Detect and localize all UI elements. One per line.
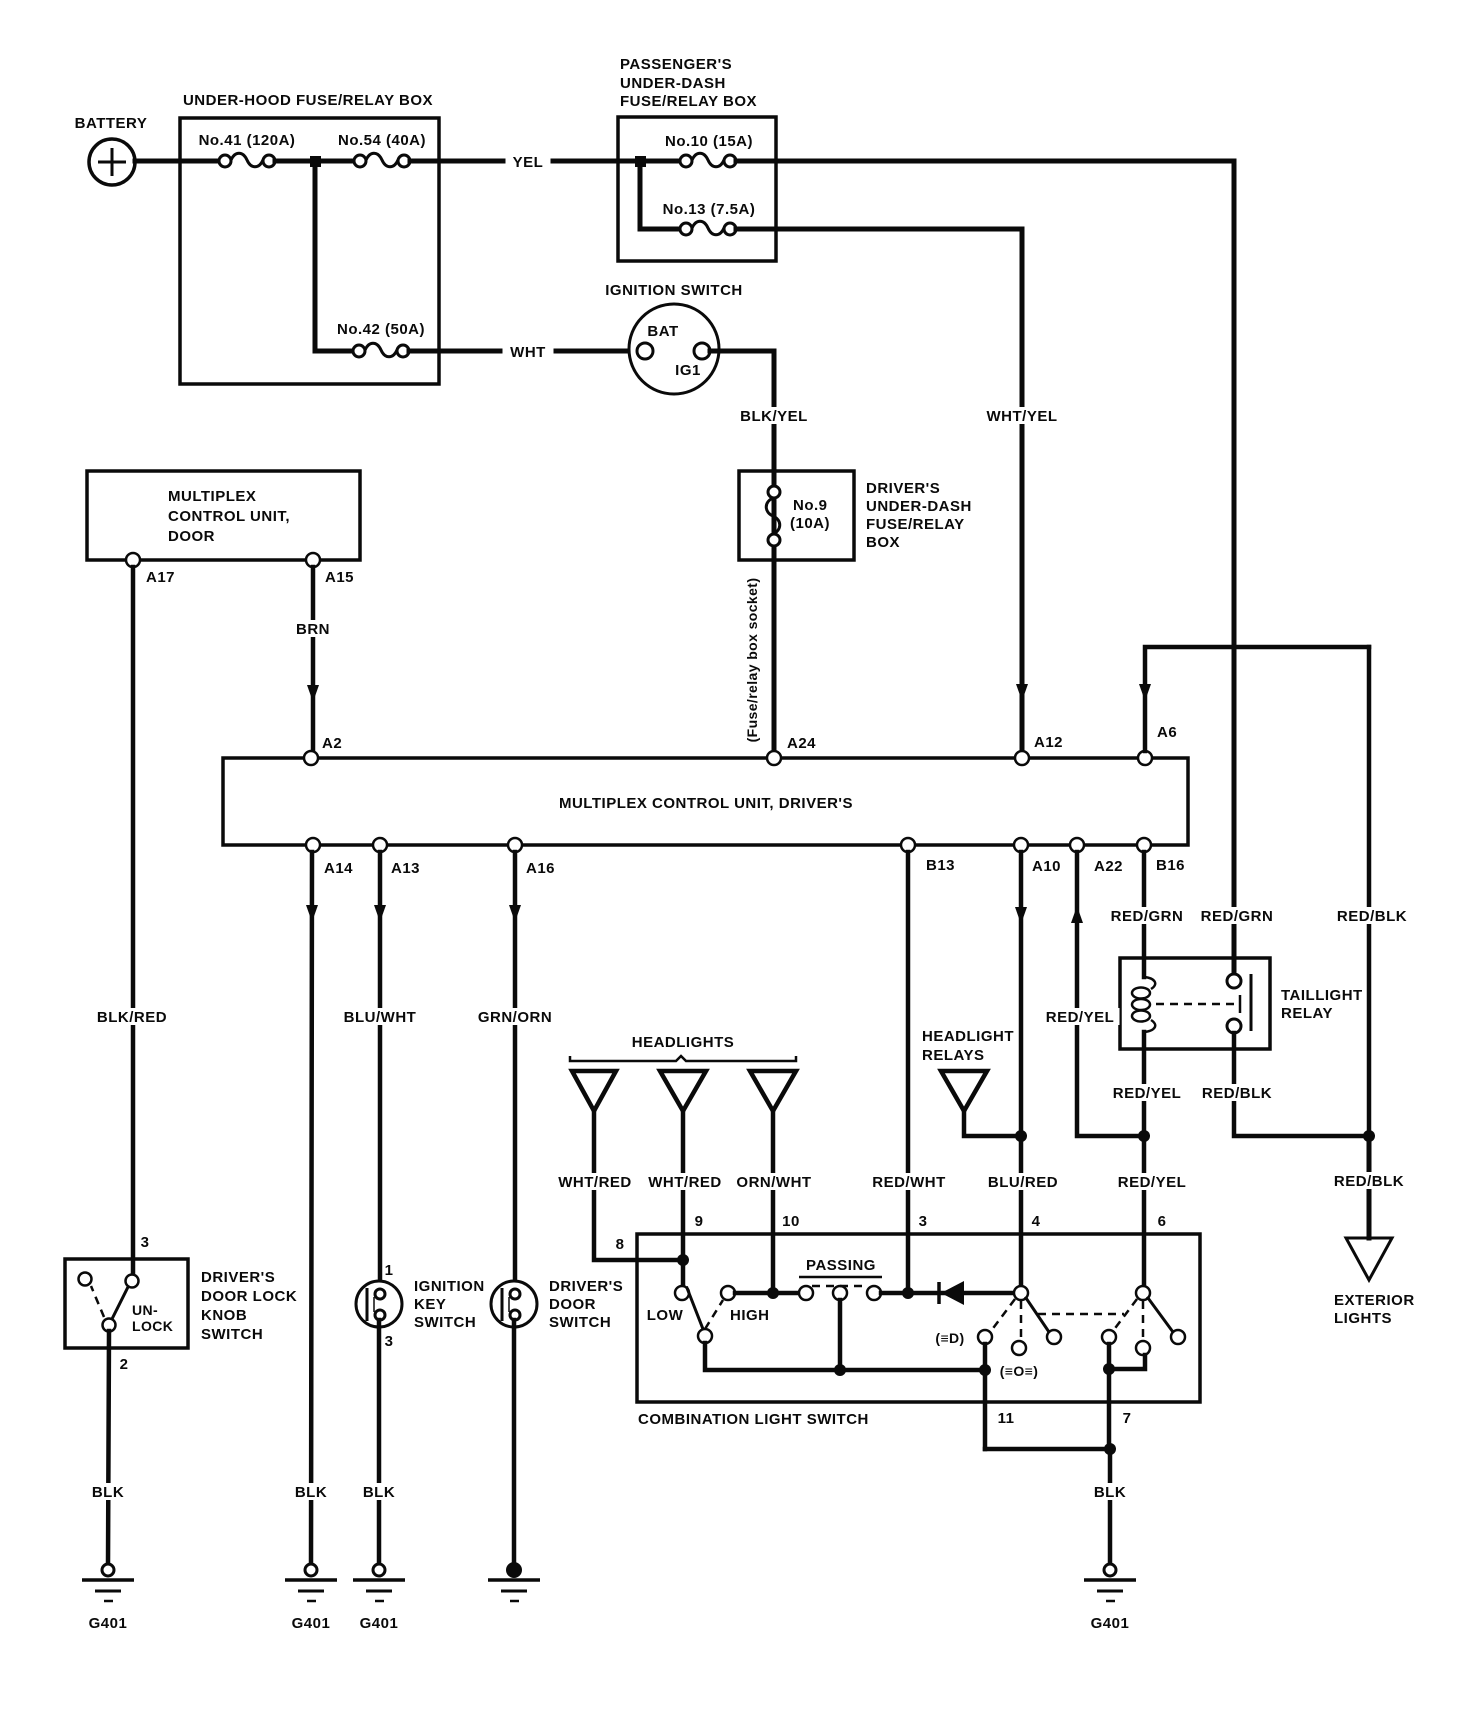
taillight switch dashed off	[1142, 1301, 1145, 1341]
svg-text:BAT: BAT	[647, 323, 678, 340]
svg-text:2: 2	[120, 1356, 129, 1373]
wire A14 to ground	[311, 852, 312, 1564]
wire BLK/YEL vertical	[772, 351, 777, 753]
svg-text:RED/BLK: RED/BLK	[1202, 1085, 1272, 1102]
svg-text:A13: A13	[391, 860, 420, 877]
driver's door lock knob switch	[65, 1234, 297, 1348]
svg-text:WHT/RED: WHT/RED	[558, 1174, 632, 1191]
svg-text:A16: A16	[526, 860, 555, 877]
terminal A17	[126, 553, 140, 567]
svg-text:DRIVER'S: DRIVER'S	[866, 480, 940, 497]
combination light switch box	[637, 1234, 1200, 1402]
svg-text:SWITCH: SWITCH	[201, 1326, 263, 1343]
svg-text:3: 3	[141, 1234, 150, 1251]
headlight switch common OFF dashed	[1020, 1301, 1023, 1341]
svg-text:RED/BLK: RED/BLK	[1337, 908, 1407, 925]
wire HIGH to passing contact	[735, 1291, 799, 1296]
wire label RED/BLK	[1332, 907, 1409, 924]
wire A17 long vertical	[131, 567, 136, 1276]
wire headlight3 ORN/WHT pin 10	[771, 1111, 776, 1293]
fuse No.10 (15A)	[640, 133, 753, 167]
wire label RED/WHT	[870, 1173, 949, 1190]
wire label YEL	[506, 152, 551, 169]
arrow on WHT/YEL wire	[1016, 684, 1028, 701]
svg-text:MULTIPLEX: MULTIPLEX	[168, 488, 256, 505]
alternate contact	[79, 1273, 92, 1286]
dimmer common	[698, 1329, 712, 1343]
headlight 2	[660, 1071, 706, 1111]
contact (ED)	[978, 1330, 992, 1344]
junction coil output and A22 branch	[1138, 1130, 1150, 1142]
junction in passenger box	[635, 156, 646, 167]
wire label WHT/RED	[556, 1173, 634, 1190]
wire A22 RED/YEL	[1077, 852, 1138, 1136]
svg-text:No.13 (7.5A): No.13 (7.5A)	[663, 201, 756, 218]
wire A13 lower to ground	[377, 1320, 382, 1564]
svg-text:GRN/ORN: GRN/ORN	[478, 1009, 552, 1026]
terminal A2	[304, 751, 318, 765]
fuse No.54 (40A)	[338, 132, 426, 167]
svg-text:RED/WHT: RED/WHT	[872, 1174, 946, 1191]
passing contact right	[867, 1286, 881, 1300]
wire label GRN/ORN	[475, 1008, 556, 1025]
wire A6 riser	[1145, 647, 1369, 751]
wire A13 upper	[378, 852, 383, 1290]
svg-text:WHT/YEL: WHT/YEL	[987, 408, 1058, 425]
wire label BLK/RED	[95, 1008, 172, 1025]
svg-text:DOOR LOCK: DOOR LOCK	[201, 1288, 297, 1305]
wire A16 lower to ground	[512, 1320, 517, 1566]
headlight switch dashed to ED	[991, 1299, 1015, 1331]
svg-text:(10A): (10A)	[790, 515, 830, 532]
contact tail lever end	[1171, 1330, 1185, 1344]
junction tail stub	[1103, 1363, 1115, 1375]
wire passing to diode to pin4 contact	[881, 1291, 1014, 1296]
wire label RED/BLK	[1199, 1084, 1276, 1101]
junction RED/WHT pin3	[902, 1287, 914, 1299]
svg-text:7: 7	[1123, 1410, 1132, 1427]
taillight switch contact pin6	[1136, 1286, 1150, 1300]
junction bus to pin 11	[979, 1364, 991, 1376]
svg-text:BLK: BLK	[92, 1484, 124, 1501]
svg-text:BLU/WHT: BLU/WHT	[344, 1009, 417, 1026]
terminal A24	[767, 751, 781, 765]
svg-text:RED/GRN: RED/GRN	[1201, 908, 1274, 925]
svg-text:BLK/RED: BLK/RED	[97, 1009, 167, 1026]
lock lever	[112, 1287, 128, 1319]
headlights brace	[570, 1056, 796, 1061]
passenger's under-dash fuse/relay box	[618, 117, 776, 261]
wire bus dimmer common	[705, 1343, 985, 1370]
fuse No.41 (120A)	[199, 132, 296, 167]
terminal B13	[901, 838, 915, 852]
svg-text:A22: A22	[1094, 858, 1123, 875]
svg-text:KNOB: KNOB	[201, 1307, 247, 1324]
svg-text:A14: A14	[324, 860, 353, 877]
wire label BLU/RED	[986, 1173, 1061, 1190]
svg-text:DRIVER'S: DRIVER'S	[549, 1278, 623, 1295]
dimmer lever	[687, 1288, 703, 1329]
ground G401 (A14)	[285, 1564, 337, 1632]
arrow on A16 wire	[509, 905, 521, 922]
taillight relay	[1120, 958, 1363, 1049]
passing contact middle	[833, 1286, 847, 1300]
wire pin11 to pin7 joint	[985, 1447, 1110, 1452]
svg-text:WHT: WHT	[510, 344, 546, 361]
svg-text:RELAY: RELAY	[1281, 1005, 1333, 1022]
wire ED contact to pin 11	[983, 1344, 988, 1449]
ignition switch	[605, 282, 743, 394]
arrow on A6 riser	[1139, 684, 1151, 701]
junction passing middle drop	[834, 1364, 846, 1376]
svg-text:FUSE/RELAY: FUSE/RELAY	[866, 516, 965, 533]
junction pin8/pin9	[677, 1254, 689, 1266]
wire label RED/GRN	[1109, 907, 1187, 924]
svg-text:MULTIPLEX CONTROL UNIT, DRIVER: MULTIPLEX CONTROL UNIT, DRIVER'S	[559, 795, 853, 812]
relay terminal bottom	[1227, 1019, 1241, 1033]
pin 3 contact	[126, 1275, 139, 1288]
svg-text:HEADLIGHTS: HEADLIGHTS	[632, 1034, 735, 1051]
svg-text:3: 3	[919, 1213, 928, 1230]
svg-text:DOOR: DOOR	[168, 528, 215, 545]
contact lever end	[1047, 1330, 1061, 1344]
wire common to ground	[108, 1331, 109, 1564]
headlight relays triangle	[941, 1071, 987, 1111]
arrow on BRN wire	[307, 685, 319, 702]
wire WHT/YEL horizontal run	[736, 227, 1022, 232]
svg-text:RED/YEL: RED/YEL	[1118, 1174, 1187, 1191]
contact HIGH	[721, 1286, 735, 1300]
relay dashed link	[1156, 1003, 1238, 1006]
svg-text:PASSENGER'S: PASSENGER'S	[620, 56, 732, 73]
junction pin10 wire	[767, 1287, 779, 1299]
passing lever dashed	[812, 1285, 868, 1288]
wire fuse41 to junction	[275, 159, 360, 164]
contact tail left	[1102, 1330, 1116, 1344]
wire label BLK	[1087, 1483, 1134, 1500]
taillight switch lever	[1148, 1298, 1173, 1332]
arrow on A13 wire	[374, 905, 386, 922]
svg-text:B13: B13	[926, 857, 955, 874]
wire label BLK	[356, 1483, 403, 1500]
terminal A14	[306, 838, 320, 852]
wire label BLK	[288, 1483, 335, 1500]
wire passenger box internal drop	[638, 161, 643, 229]
svg-text:EXTERIOR: EXTERIOR	[1334, 1292, 1415, 1309]
relay terminal top	[1227, 974, 1241, 988]
lock lever dashed alternate	[91, 1286, 104, 1317]
svg-text:YEL: YEL	[513, 154, 544, 171]
svg-text:G401: G401	[89, 1615, 128, 1632]
arrow on A14 wire	[306, 905, 318, 922]
svg-text:11: 11	[998, 1410, 1015, 1427]
relay coil	[1144, 974, 1155, 989]
svg-text:LOW: LOW	[647, 1307, 684, 1324]
contact position small	[1012, 1341, 1026, 1355]
svg-text:4: 4	[1032, 1213, 1041, 1230]
terminal A6	[1138, 751, 1152, 765]
svg-text:BLU/RED: BLU/RED	[988, 1174, 1058, 1191]
svg-text:UNDER-DASH: UNDER-DASH	[620, 75, 726, 92]
wire headlight relays to BLU/RED	[964, 1111, 1015, 1136]
contact tail middle	[1136, 1341, 1150, 1355]
wire label RED/YEL	[1042, 1008, 1120, 1025]
terminal A10	[1014, 838, 1028, 852]
wire label ORN/WHT	[733, 1173, 816, 1190]
svg-text:G401: G401	[360, 1615, 399, 1632]
fuse No.9 (10A)	[766, 486, 830, 546]
driver's under-dash fuse/relay box	[739, 471, 854, 560]
wire label RED/YEL	[1109, 1084, 1187, 1101]
wire A15 to A2 (BRN)	[311, 567, 316, 751]
svg-text:HIGH: HIGH	[730, 1307, 770, 1324]
svg-text:WHT/RED: WHT/RED	[648, 1174, 722, 1191]
svg-text:6: 6	[1158, 1213, 1167, 1230]
junction on BLU/RED	[1015, 1130, 1027, 1142]
svg-text:(≡D): (≡D)	[935, 1330, 964, 1346]
svg-text:BLK: BLK	[295, 1484, 327, 1501]
svg-text:10: 10	[782, 1213, 800, 1230]
svg-text:RED/BLK: RED/BLK	[1334, 1173, 1404, 1190]
ganged link dashed	[1038, 1313, 1124, 1316]
terminal A15	[306, 553, 320, 567]
svg-text:A12: A12	[1034, 734, 1063, 751]
svg-text:A17: A17	[146, 569, 175, 586]
arrow on A22 wire	[1071, 906, 1083, 923]
wire tail left to pin7	[1107, 1344, 1112, 1449]
svg-text:RED/YEL: RED/YEL	[1046, 1009, 1115, 1026]
wire label RED/YEL	[1114, 1173, 1192, 1190]
relay contact bar	[1250, 974, 1253, 1031]
wire junction down to fuse42	[313, 161, 318, 351]
junction pin7	[1104, 1443, 1116, 1455]
svg-text:No.41 (120A): No.41 (120A)	[199, 132, 296, 149]
svg-text:FUSE/RELAY BOX: FUSE/RELAY BOX	[620, 93, 757, 110]
wire WHT/YEL vertical to A12	[1020, 229, 1025, 753]
contact LOW	[675, 1286, 689, 1300]
wire right vertical to exterior lights	[1367, 1136, 1372, 1238]
wire battery to under-hood box	[135, 159, 225, 164]
svg-text:BLK: BLK	[1094, 1484, 1126, 1501]
wire label BLK/YEL	[735, 407, 815, 424]
taillight switch dashed left	[1113, 1299, 1137, 1331]
terminal B16	[1137, 838, 1151, 852]
svg-text:BOX: BOX	[866, 534, 900, 551]
svg-text:PASSING: PASSING	[806, 1257, 876, 1274]
wire label RED/GRN	[1199, 907, 1277, 924]
ground G401 (combination switch)	[1084, 1564, 1136, 1632]
svg-text:A6: A6	[1157, 724, 1177, 741]
svg-text:COMBINATION LIGHT SWITCH: COMBINATION LIGHT SWITCH	[638, 1411, 869, 1428]
wire IG1 to BLK/YEL drop	[710, 349, 774, 354]
svg-text:RED/YEL: RED/YEL	[1113, 1085, 1182, 1102]
svg-text:No.54 (40A): No.54 (40A)	[338, 132, 426, 149]
svg-text:SWITCH: SWITCH	[549, 1314, 611, 1331]
driver's door switch	[491, 1278, 623, 1331]
junction	[310, 156, 321, 167]
multiplex control unit, door box	[87, 471, 360, 560]
svg-text:A2: A2	[322, 735, 342, 752]
common contact	[103, 1319, 116, 1332]
wire right vertical RED/BLK feed	[1367, 647, 1372, 1136]
wire fuse10 right long to top-right corner	[736, 159, 1234, 164]
wire label WHT	[503, 342, 554, 359]
dimmer lever dashed alternate	[705, 1300, 723, 1329]
under-hood fuse/relay box	[180, 118, 439, 384]
svg-text:BLK/YEL: BLK/YEL	[740, 408, 808, 425]
wire relay output RED/BLK	[1234, 1033, 1369, 1136]
svg-text:(≡O≡): (≡O≡)	[1000, 1363, 1039, 1379]
svg-text:B16: B16	[1156, 857, 1185, 874]
svg-text:BRN: BRN	[296, 621, 330, 638]
svg-text:HEADLIGHT: HEADLIGHT	[922, 1028, 1014, 1045]
fuse No.42 (50A)	[315, 321, 425, 357]
svg-text:RELAYS: RELAYS	[922, 1047, 984, 1064]
wire label WHT/RED	[646, 1173, 724, 1190]
svg-text:SWITCH: SWITCH	[414, 1314, 476, 1331]
svg-text:A24: A24	[787, 735, 816, 752]
wire B16 to relay coil	[1142, 852, 1147, 977]
svg-text:RED/GRN: RED/GRN	[1111, 908, 1184, 925]
terminal A16	[508, 838, 522, 852]
svg-text:ORN/WHT: ORN/WHT	[736, 1174, 811, 1191]
headlight 3	[750, 1071, 796, 1111]
svg-text:G401: G401	[1091, 1615, 1130, 1632]
svg-text:LIGHTS: LIGHTS	[1334, 1310, 1392, 1327]
svg-text:IG1: IG1	[675, 362, 701, 379]
wire label WHT/YEL	[982, 407, 1064, 424]
svg-text:KEY: KEY	[414, 1296, 446, 1313]
svg-text:8: 8	[616, 1236, 625, 1253]
wire label RED/BLK	[1331, 1172, 1408, 1189]
terminal A13	[373, 838, 387, 852]
diode	[939, 1281, 964, 1305]
wire headlight1 WHT/RED	[594, 1111, 684, 1260]
passing contact left	[799, 1286, 813, 1300]
fuse No.13 (7.5A)	[663, 201, 756, 235]
wire label BLU/WHT	[341, 1008, 420, 1025]
svg-text:UNDER-HOOD FUSE/RELAY BOX: UNDER-HOOD FUSE/RELAY BOX	[183, 92, 433, 109]
headlight switch contact pin4	[1014, 1286, 1028, 1300]
ground (A16, solid)	[488, 1562, 540, 1601]
battery	[89, 139, 135, 185]
svg-text:1: 1	[385, 1262, 394, 1279]
multiplex control unit driver's box	[223, 758, 1188, 845]
ignition key switch	[356, 1262, 485, 1350]
svg-text:BLK: BLK	[363, 1484, 395, 1501]
svg-text:IGNITION SWITCH: IGNITION SWITCH	[605, 282, 743, 299]
wire B13 RED/WHT	[906, 852, 911, 1293]
wire pin7 to ground BLK	[1108, 1449, 1113, 1564]
svg-text:A15: A15	[325, 569, 354, 586]
svg-text:G401: G401	[292, 1615, 331, 1632]
terminal A12	[1015, 751, 1029, 765]
wire A10 BLU/RED	[1019, 852, 1024, 1293]
svg-text:No.10 (15A): No.10 (15A)	[665, 133, 753, 150]
wire label BLK	[85, 1483, 132, 1500]
terminal A22	[1070, 838, 1084, 852]
svg-text:No.42 (50A): No.42 (50A)	[337, 321, 425, 338]
svg-text:TAILLIGHT: TAILLIGHT	[1281, 987, 1363, 1004]
svg-text:DRIVER'S: DRIVER'S	[201, 1269, 275, 1286]
headlight 1	[572, 1071, 616, 1111]
svg-text:UN-: UN-	[132, 1302, 158, 1318]
ground G401 (A13)	[353, 1564, 405, 1632]
wire A16 upper	[513, 852, 518, 1290]
svg-text:(Fuse/relay box socket): (Fuse/relay box socket)	[744, 578, 760, 743]
svg-text:A10: A10	[1032, 858, 1061, 875]
svg-text:IGNITION: IGNITION	[414, 1278, 485, 1295]
wire YEL to passenger box	[410, 159, 640, 164]
svg-text:3: 3	[385, 1333, 394, 1350]
wire passing middle drop	[838, 1300, 843, 1370]
wire top feed down to taillight relay	[1232, 161, 1237, 981]
wire headlight2 WHT/RED pin 9	[681, 1111, 686, 1287]
junction at right vertical	[1363, 1130, 1375, 1142]
wire WHT to ignition switch	[409, 349, 640, 354]
wire tail middle stub	[1109, 1355, 1145, 1369]
wire label BRN	[291, 620, 336, 637]
exterior lights arrow	[1346, 1238, 1392, 1280]
svg-text:9: 9	[695, 1213, 704, 1230]
svg-text:DOOR: DOOR	[549, 1296, 596, 1313]
ground G401 (door lock)	[82, 1564, 134, 1632]
svg-text:BATTERY: BATTERY	[75, 115, 148, 132]
wire coil output RED/YEL	[1142, 1032, 1147, 1293]
svg-text:UNDER-DASH: UNDER-DASH	[866, 498, 972, 515]
svg-text:LOCK: LOCK	[132, 1318, 173, 1334]
svg-text:No.9: No.9	[793, 497, 828, 514]
svg-text:CONTROL UNIT,: CONTROL UNIT,	[168, 508, 290, 525]
headlight switch lever	[1026, 1298, 1049, 1332]
arrow on A10 wire	[1015, 907, 1027, 924]
